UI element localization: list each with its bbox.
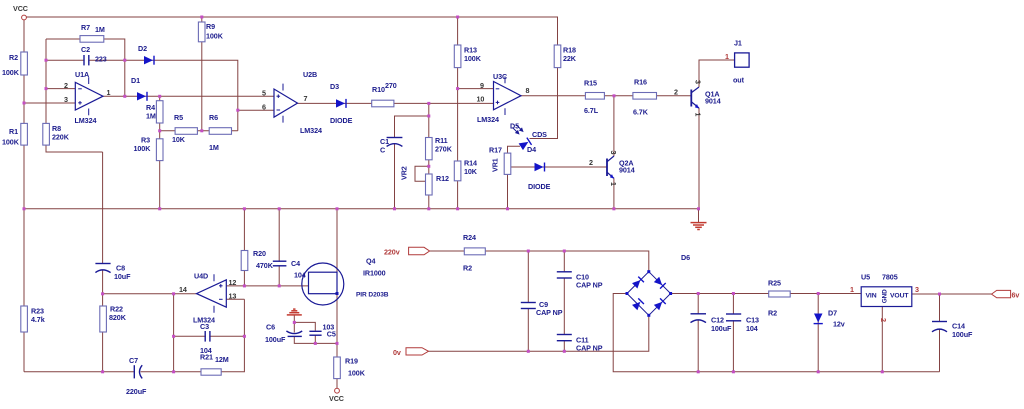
svg-text:VOUT: VOUT — [890, 293, 909, 300]
svg-text:IR1000: IR1000 — [363, 269, 386, 278]
svg-text:223: 223 — [95, 55, 107, 64]
svg-text:22K: 22K — [563, 54, 577, 63]
svg-text:C2: C2 — [81, 45, 90, 54]
svg-text:14: 14 — [179, 285, 187, 294]
svg-text:7: 7 — [304, 94, 308, 103]
svg-text:100K: 100K — [464, 54, 482, 63]
svg-text:R19: R19 — [345, 357, 358, 366]
svg-text:R1: R1 — [9, 127, 18, 136]
svg-text:VCC: VCC — [329, 394, 344, 403]
svg-text:270: 270 — [385, 81, 397, 90]
svg-text:D3: D3 — [330, 82, 339, 91]
svg-text:R7: R7 — [81, 23, 90, 32]
svg-text:R2: R2 — [9, 53, 18, 62]
svg-text:3: 3 — [609, 151, 618, 155]
svg-text:9: 9 — [480, 81, 484, 90]
svg-text:R17: R17 — [489, 146, 502, 155]
svg-text:1: 1 — [725, 52, 729, 61]
svg-text:820K: 820K — [109, 313, 127, 322]
svg-text:100K: 100K — [206, 32, 224, 41]
svg-text:R2: R2 — [768, 309, 777, 318]
svg-text:100uF: 100uF — [952, 330, 973, 339]
svg-text:R12: R12 — [436, 174, 449, 183]
svg-text:3: 3 — [64, 95, 68, 104]
svg-text:104: 104 — [294, 271, 306, 280]
svg-text:10K: 10K — [172, 135, 186, 144]
svg-text:VR2: VR2 — [400, 166, 409, 180]
svg-text:R25: R25 — [768, 279, 781, 288]
svg-text:12v: 12v — [833, 320, 845, 329]
svg-text:10K: 10K — [464, 167, 478, 176]
svg-text:D4: D4 — [527, 145, 536, 154]
svg-text:104: 104 — [746, 324, 758, 333]
svg-text:8: 8 — [526, 86, 530, 95]
svg-text:220v: 220v — [384, 248, 400, 257]
svg-text:PIR D203B: PIR D203B — [356, 292, 389, 299]
svg-text:1M: 1M — [95, 25, 105, 34]
svg-text:LM324: LM324 — [477, 115, 499, 124]
svg-text:out: out — [733, 76, 745, 85]
svg-text:9014: 9014 — [705, 97, 721, 106]
svg-text:13: 13 — [229, 292, 237, 301]
svg-text:100K: 100K — [348, 369, 366, 378]
svg-text:R6: R6 — [209, 113, 218, 122]
svg-text:270K: 270K — [435, 145, 453, 154]
svg-text:D1: D1 — [131, 76, 140, 85]
svg-text:C4: C4 — [291, 259, 300, 268]
svg-text:220uF: 220uF — [126, 387, 147, 396]
svg-text:D2: D2 — [138, 44, 147, 53]
svg-text:R5: R5 — [174, 113, 183, 122]
svg-text:R16: R16 — [634, 78, 647, 87]
svg-text:LM324: LM324 — [300, 126, 322, 135]
svg-text:CAP NP: CAP NP — [576, 281, 603, 290]
svg-text:R20: R20 — [253, 249, 266, 258]
svg-text:R2: R2 — [463, 264, 472, 273]
svg-text:100uF: 100uF — [711, 324, 732, 333]
svg-text:6.7L: 6.7L — [584, 106, 599, 115]
svg-text:VR1: VR1 — [491, 158, 500, 172]
svg-text:2: 2 — [589, 158, 593, 167]
svg-text:U4D: U4D — [194, 272, 208, 281]
svg-text:R15: R15 — [584, 79, 597, 88]
svg-text:6.7K: 6.7K — [633, 108, 649, 117]
svg-text:6: 6 — [262, 102, 266, 111]
svg-text:U3C: U3C — [493, 72, 507, 81]
svg-text:1: 1 — [850, 285, 854, 294]
svg-text:100K: 100K — [134, 144, 152, 153]
svg-text:1M: 1M — [209, 143, 219, 152]
svg-text:Q4: Q4 — [366, 257, 375, 266]
svg-text:3: 3 — [915, 285, 919, 294]
svg-text:12M: 12M — [215, 355, 229, 364]
svg-text:9014: 9014 — [619, 166, 635, 175]
svg-text:10: 10 — [477, 95, 485, 104]
svg-text:4.7k: 4.7k — [31, 315, 45, 324]
svg-text:C3: C3 — [200, 322, 209, 331]
svg-text:U2B: U2B — [303, 70, 317, 79]
svg-text:2: 2 — [674, 88, 678, 97]
svg-text:DIODE: DIODE — [528, 182, 551, 191]
svg-text:GND: GND — [881, 289, 888, 303]
svg-text:C: C — [380, 146, 385, 155]
svg-text:LM324: LM324 — [75, 116, 97, 125]
svg-text:100K: 100K — [2, 68, 20, 77]
svg-text:CDS: CDS — [532, 130, 547, 139]
svg-text:7805: 7805 — [882, 273, 898, 282]
svg-text:1: 1 — [609, 182, 618, 186]
svg-text:DIODE: DIODE — [330, 116, 353, 125]
svg-text:C5: C5 — [327, 329, 336, 338]
svg-text:2: 2 — [64, 81, 68, 90]
svg-text:220K: 220K — [52, 133, 70, 142]
svg-text:J1: J1 — [734, 39, 742, 48]
svg-text:1M: 1M — [146, 112, 156, 121]
svg-text:470K: 470K — [256, 261, 274, 270]
svg-text:D5: D5 — [510, 122, 519, 131]
svg-text:R10: R10 — [372, 85, 385, 94]
svg-text:1: 1 — [694, 113, 703, 117]
svg-text:R24: R24 — [463, 233, 476, 242]
svg-text:100K: 100K — [2, 138, 20, 147]
svg-text:VIN: VIN — [866, 293, 877, 300]
svg-text:D6: D6 — [681, 253, 690, 262]
svg-text:VCC: VCC — [13, 4, 28, 13]
svg-text:6v: 6v — [1012, 290, 1020, 299]
svg-text:5: 5 — [262, 88, 266, 97]
svg-text:1: 1 — [107, 88, 111, 97]
svg-text:100uF: 100uF — [265, 335, 286, 344]
svg-text:D7: D7 — [828, 309, 837, 318]
svg-text:2: 2 — [879, 318, 888, 322]
svg-text:CAP NP: CAP NP — [536, 308, 563, 317]
svg-text:R21: R21 — [200, 353, 213, 362]
svg-text:R9: R9 — [206, 22, 215, 31]
svg-text:3: 3 — [694, 80, 703, 84]
svg-text:0v: 0v — [393, 348, 401, 357]
svg-text:C6: C6 — [266, 323, 275, 332]
svg-text:CAP NP: CAP NP — [576, 344, 603, 353]
svg-text:U5: U5 — [861, 273, 870, 282]
svg-text:U1A: U1A — [75, 70, 89, 79]
svg-text:10uF: 10uF — [114, 272, 131, 281]
svg-text:C7: C7 — [129, 356, 138, 365]
svg-text:12: 12 — [229, 278, 237, 287]
